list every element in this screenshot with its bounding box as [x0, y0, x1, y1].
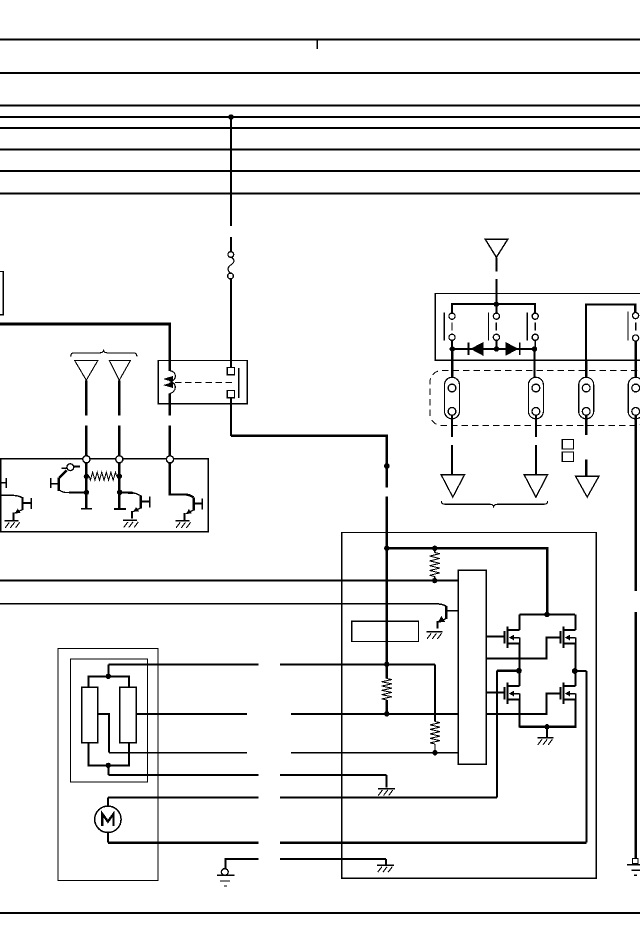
terminal capsule C4 — [628, 377, 640, 419]
wire feed after connector break — [386, 496, 389, 664]
relay box — [158, 360, 247, 403]
wire P3 down to connector — [533, 349, 535, 384]
wire motor bottom stub — [107, 832, 109, 842]
unit box top right — [435, 294, 640, 361]
fuse F1 — [228, 252, 234, 279]
node diode rail right — [532, 346, 537, 351]
wire C2 below — [535, 415, 537, 437]
wire pin A down — [85, 463, 88, 509]
node bridge left mid — [516, 668, 522, 674]
transistor T5 in module — [437, 604, 458, 629]
wire C3 after break — [585, 460, 587, 477]
stub right of Q1 pin circle — [74, 466, 80, 468]
wire LL source to rail — [519, 700, 521, 728]
pot left wiper tap — [98, 714, 110, 753]
wire bridge top rail — [520, 613, 575, 615]
label square 2 — [562, 452, 573, 462]
node B2 — [117, 490, 122, 495]
node R1 at power feed — [384, 662, 389, 667]
chassis ground G6 at bottom right — [627, 858, 640, 875]
node A1 — [84, 474, 89, 479]
resistor R1b in feed line — [382, 664, 392, 714]
relay terminal square bottom — [227, 391, 234, 398]
wire thick feed bus to relay coil — [0, 324, 170, 371]
node B1 — [117, 474, 122, 479]
node diode rail left — [450, 346, 455, 351]
wire C2 after break — [535, 445, 537, 475]
resistor R-left between A1 and B1 — [89, 472, 116, 480]
terminal capsule C2 — [528, 377, 543, 419]
wire C3 below — [585, 415, 587, 435]
wire row R2 pot right wiper — [136, 713, 247, 715]
terminal bar under pin A — [81, 508, 92, 510]
wire LL drain to node — [519, 671, 521, 686]
node bridge bottom — [544, 724, 549, 729]
ground of Q3 — [123, 520, 138, 527]
wire bridge bottom rail — [520, 726, 576, 728]
wire right column from C4 — [635, 415, 637, 591]
pin circle C — [166, 456, 173, 463]
pin circle B — [116, 456, 123, 463]
MOSFET LR — [561, 683, 576, 704]
wire row in2 (y604) — [0, 603, 437, 605]
wire from triangle G1 — [85, 380, 87, 415]
wire coil output after connector break — [169, 426, 171, 457]
wire left mid node link — [497, 670, 519, 672]
connector bar P3 — [526, 312, 528, 340]
pot bottom wiring — [89, 743, 129, 775]
resistor R0 — [430, 548, 440, 580]
wire row R3 pot left wiper — [109, 752, 247, 754]
wire fuse feed after connector break — [230, 237, 232, 252]
connector edge box at left margin — [0, 272, 3, 315]
wire output A riser — [496, 671, 498, 798]
wire row R2 continued — [291, 713, 458, 715]
motor M1 — [95, 806, 121, 832]
node bridge top — [544, 612, 549, 617]
wire relay output to module — [231, 436, 387, 488]
wire triangle to unit after break — [495, 279, 497, 304]
wire bus line 1 — [0, 38, 640, 40]
transistor Q4 — [185, 497, 203, 520]
ground G-R7 — [377, 865, 394, 872]
wire second rail down to connector — [585, 360, 587, 384]
wire R4 to ground — [385, 775, 387, 788]
transistor T1 partial at page edge — [0, 478, 6, 488]
wire C1 below — [451, 415, 453, 437]
connector bar P4 — [627, 312, 629, 341]
wire module top feed — [387, 548, 547, 614]
wire R7 to module ground — [385, 859, 387, 865]
wire row R7 continued — [280, 858, 386, 860]
wire output B riser — [585, 671, 587, 843]
ground of T5 — [427, 632, 443, 639]
pin circles column P3 — [532, 313, 538, 346]
wire bus line 8 — [0, 192, 640, 194]
chassis ground G5 — [217, 858, 234, 886]
pin circles column P2 — [493, 304, 499, 346]
node feed at module top line — [384, 546, 389, 551]
wire triangle G2 after connector break — [118, 426, 120, 456]
relay contact bar — [238, 368, 240, 398]
sensor outer box — [58, 649, 158, 881]
wire motor top stub — [107, 798, 109, 807]
pin circles column P1 — [449, 313, 455, 346]
wire bus line 2 — [0, 72, 640, 74]
MOSFET UR — [561, 627, 576, 648]
capsule C1 circles — [448, 384, 456, 415]
pin circles column P4 — [633, 313, 639, 342]
triangle ground arrow T1 — [441, 475, 464, 497]
ground of Q4 — [176, 521, 191, 528]
pin circle of Q1 collector — [67, 464, 74, 471]
connector bar P2 — [488, 312, 490, 340]
terminal capsule C1 — [445, 377, 460, 419]
transistor Q4 base feed — [170, 463, 194, 497]
control module box — [342, 533, 596, 879]
wire row R6 continued — [280, 842, 587, 844]
capsule C4 circles — [632, 384, 640, 415]
node splice on relay output wire — [384, 463, 390, 469]
wire LR source to rail — [575, 700, 577, 728]
wire UL drain — [519, 615, 521, 630]
MOSFET UL — [505, 627, 520, 648]
wire unit feed rail — [452, 304, 535, 313]
triangle ground arrow T3 — [576, 476, 599, 497]
connector bar P1 — [443, 312, 445, 340]
wire row R4 pot bottom — [108, 774, 258, 776]
node pot top — [106, 674, 111, 679]
triangle ground arrow T2 — [524, 475, 547, 497]
ground of Q2 — [5, 521, 20, 528]
ground G-R4 — [378, 789, 395, 796]
transistor Q3 — [132, 495, 150, 518]
label square 1 — [562, 440, 573, 450]
relay coil L1 — [165, 371, 176, 394]
wire gate UL — [486, 635, 504, 637]
wire UR source to node — [575, 644, 577, 672]
wire row R1 pot top — [108, 663, 258, 665]
sensor inner box — [71, 659, 148, 782]
node A2 — [84, 490, 89, 495]
wire from triangle G2 — [118, 380, 120, 415]
dashed connector outline — [430, 371, 640, 426]
wire C1 after break — [451, 445, 453, 475]
wire row R4 continued — [280, 774, 386, 776]
brace over triangles — [71, 351, 137, 357]
node R2 at resistor — [384, 711, 389, 716]
resistor R2b — [430, 722, 440, 753]
wire row R1 continued — [280, 663, 435, 665]
wire diode rail — [452, 348, 534, 350]
wire row in1 (y581) — [0, 580, 458, 582]
wire row R6 motor- — [108, 842, 259, 844]
node feed in unit — [494, 302, 499, 307]
wire triangle G1 after connector break — [85, 426, 87, 456]
wire triangle to unit — [495, 257, 497, 271]
pot top feed wiring — [89, 664, 129, 687]
wire pin B down — [118, 463, 121, 509]
capsule C3 circles — [582, 384, 590, 415]
relay terminal square top — [227, 368, 234, 375]
wire bus line 3 — [0, 104, 640, 106]
wire gate LL — [486, 691, 504, 693]
wire second rail in unit — [586, 305, 635, 361]
node R0 bottom — [432, 578, 437, 583]
transistor Q2 base feed — [0, 495, 22, 497]
unit box left (sensor unit) — [1, 459, 209, 532]
triangle arrow G1 — [75, 360, 98, 380]
terminal bar under pin B — [114, 508, 126, 510]
wire bus line 7 — [0, 170, 640, 172]
node feed R0 — [432, 546, 437, 551]
wire gate LR path — [486, 693, 560, 714]
wire bus line 5 — [0, 127, 640, 129]
IC block — [458, 570, 486, 764]
wire row R5 motor+ — [108, 796, 259, 798]
wire fuse feed upper — [230, 117, 232, 226]
terminal capsule C3 — [579, 377, 594, 419]
wire gate UR path — [486, 637, 560, 658]
ground G-bridge — [537, 738, 553, 745]
wire UL source to node — [519, 644, 521, 672]
diode D1 — [468, 343, 482, 356]
wire row R7 ground link — [226, 858, 259, 860]
wire row R3 continued — [291, 752, 458, 754]
tick marker on bus line 1 — [316, 40, 318, 49]
node bridge right mid — [572, 668, 578, 674]
pot element left — [82, 687, 98, 743]
wire right mid node link — [575, 670, 587, 672]
wire fuse to relay — [230, 279, 232, 368]
wire right column after break — [635, 612, 637, 858]
page bottom border — [0, 912, 640, 914]
transistor Q3 base feed — [120, 491, 134, 494]
relay actuation dashed link — [175, 381, 233, 383]
capsule C2 circles — [532, 384, 540, 415]
pin circle A — [83, 456, 90, 463]
triangle arrow feed top right — [485, 239, 508, 257]
wire bridge ground stub — [546, 727, 548, 737]
wire row R5 continued — [280, 796, 497, 798]
underbrace below T1 T2 — [441, 501, 547, 506]
wire UR drain — [575, 615, 577, 630]
triangle arrow G2 — [109, 360, 130, 380]
wire R1 corner to resistor R2b — [434, 664, 436, 721]
node diode rail mid — [494, 346, 499, 351]
transistor Q2 — [14, 497, 32, 520]
node junction on bus line 4 — [228, 114, 233, 119]
wire bus line 6 — [0, 148, 640, 150]
transistor Q1 (with pull-up pin) — [51, 468, 86, 492]
node R3 at resistor — [432, 750, 437, 755]
wire bus line 4 — [0, 116, 640, 118]
wire P4 down to connector — [635, 341, 637, 384]
label box in module — [352, 621, 419, 641]
MOSFET LL — [505, 683, 520, 704]
wire relay contact output — [230, 398, 232, 436]
diode D2 — [506, 343, 520, 356]
wire relay coil to connector break — [169, 393, 171, 415]
node pot bottom — [106, 763, 111, 768]
wire LR drain to node — [575, 671, 577, 686]
wire P1 down to connector — [451, 349, 453, 384]
pot element right — [120, 687, 137, 743]
